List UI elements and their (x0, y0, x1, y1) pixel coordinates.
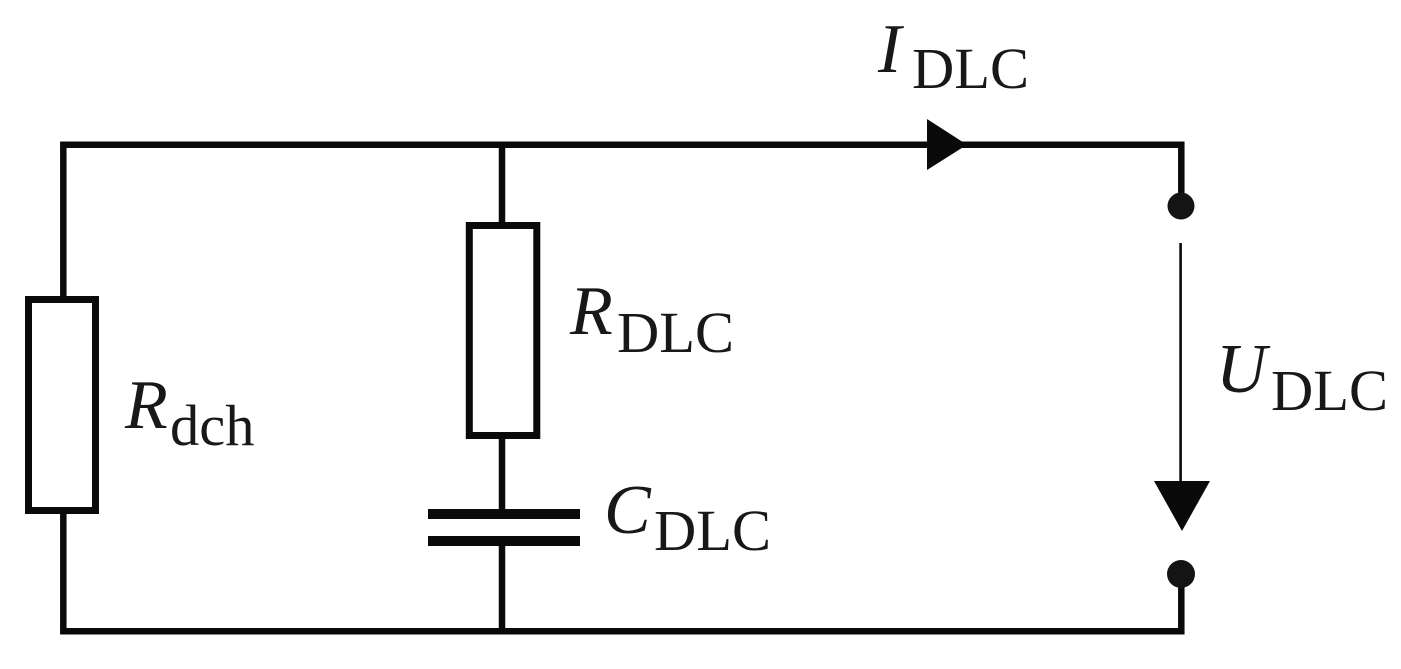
label C_DLC (604, 472, 771, 563)
label I_DLC (877, 11, 1029, 101)
svg-text:DLC: DLC (654, 498, 771, 563)
wire: right branch lower (1178, 574, 1185, 634)
capacitor C_DLC top plate (428, 509, 580, 519)
svg-text:R: R (569, 273, 613, 350)
wire: right branch upper (1178, 142, 1185, 206)
wire: left branch lower (60, 510, 67, 634)
svg-text:C: C (604, 472, 652, 549)
resistor R_DLC body (469, 226, 537, 436)
svg-text:DLC: DLC (1271, 358, 1388, 423)
resistor R_dch body (29, 300, 96, 511)
label U_DLC (1216, 331, 1388, 423)
svg-text:U: U (1216, 331, 1271, 408)
wire: top horizontal bus (60, 141, 1184, 148)
wire: bottom horizontal bus (60, 628, 1184, 635)
label R_DLC (569, 273, 734, 365)
voltage arrow U_DLC head (1154, 481, 1210, 531)
current direction arrowhead for I_DLC (927, 119, 967, 170)
wire: middle branch upper (499, 142, 506, 226)
wire: middle branch lower (499, 543, 506, 631)
wire: left branch upper (60, 142, 67, 300)
svg-text:R: R (124, 367, 168, 444)
svg-text:DLC: DLC (912, 36, 1029, 101)
svg-text:dch: dch (170, 393, 254, 458)
capacitor C_DLC bottom plate (428, 536, 580, 546)
label R_dch (124, 367, 254, 458)
terminal node top (dot) (1168, 193, 1195, 220)
terminal node bottom (dot) (1167, 560, 1195, 588)
svg-text:I: I (877, 11, 905, 88)
wire: middle branch between R_DLC and C_DLC (499, 435, 506, 512)
svg-text:DLC: DLC (617, 300, 734, 365)
voltage arrow U_DLC shaft (1179, 243, 1182, 484)
